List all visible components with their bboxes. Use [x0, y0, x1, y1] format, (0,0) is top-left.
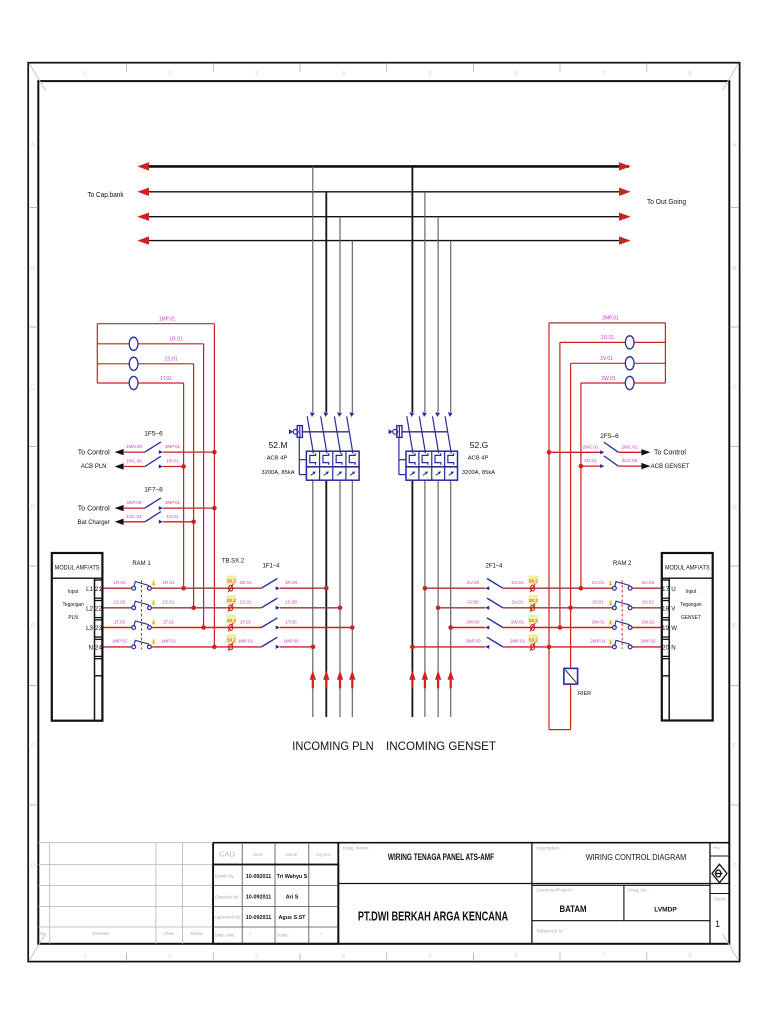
svg-text:1RC.00: 1RC.00	[126, 459, 142, 464]
svg-text:22: 22	[95, 605, 103, 612]
svg-text:Name: Name	[191, 931, 204, 936]
svg-text:RAM 1: RAM 1	[132, 561, 151, 567]
svg-text:ACB PLN: ACB PLN	[81, 464, 107, 470]
svg-text:7: 7	[602, 72, 606, 78]
svg-text:D: D	[732, 505, 737, 511]
svg-text:TB.SX.2: TB.SX.2	[222, 559, 245, 565]
svg-text:U: U	[671, 586, 675, 593]
svg-text:·: ·	[320, 932, 322, 938]
svg-text:Ari S: Ari S	[286, 895, 299, 901]
svg-text:L2: L2	[86, 605, 93, 612]
svg-text:1R.00: 1R.00	[285, 580, 298, 585]
svg-text:1NP.00: 1NP.00	[127, 500, 142, 505]
svg-text:2W.01: 2W.01	[511, 619, 524, 624]
svg-text:B: B	[732, 266, 736, 272]
svg-text:3200A, 85kA: 3200A, 85kA	[261, 470, 294, 476]
svg-text:ACB 4P: ACB 4P	[468, 456, 489, 462]
svg-text:GENSET: GENSET	[681, 615, 702, 621]
svg-text:W: W	[671, 625, 677, 632]
svg-text:F: F	[733, 744, 737, 750]
svg-text:SX.2: SX.2	[227, 598, 237, 603]
svg-text:To Control: To Control	[78, 505, 110, 512]
svg-text:2MC.02: 2MC.02	[621, 444, 638, 449]
svg-text:1S.01: 1S.01	[162, 600, 174, 605]
svg-text:F: F	[31, 744, 35, 750]
svg-text:Reference to :: Reference to :	[537, 929, 565, 934]
svg-text:2F5–6: 2F5–6	[600, 433, 619, 440]
svg-text:4: 4	[342, 954, 346, 960]
svg-text:·: ·	[250, 932, 252, 938]
svg-text:24: 24	[95, 645, 103, 652]
svg-text:1S.01: 1S.01	[166, 514, 178, 519]
svg-text:1R.01: 1R.01	[162, 580, 175, 585]
svg-text:E: E	[732, 624, 736, 630]
svg-text:2W.02: 2W.02	[641, 619, 654, 624]
svg-text:2U.00: 2U.00	[467, 580, 480, 585]
svg-text:2V.01: 2V.01	[592, 600, 604, 605]
svg-text:C: C	[31, 385, 36, 391]
svg-text:1SC.01: 1SC.01	[126, 514, 142, 519]
svg-text:Checked by: Checked by	[215, 894, 240, 899]
svg-text:SX.2: SX.2	[529, 579, 539, 584]
svg-text:B: B	[31, 266, 35, 272]
svg-text:2F1–4: 2F1–4	[485, 564, 503, 570]
svg-text:G: G	[732, 863, 737, 869]
svg-text:2U.01: 2U.01	[592, 580, 605, 585]
svg-text:Tegangan: Tegangan	[62, 602, 83, 608]
svg-text:2MP.02: 2MP.02	[640, 639, 656, 644]
svg-text:To Cap.bank: To Cap.bank	[87, 192, 124, 199]
svg-text:1F5–6: 1F5–6	[144, 431, 163, 438]
svg-text:Tegangan: Tegangan	[680, 602, 701, 608]
svg-text:Date: Date	[165, 931, 175, 936]
svg-text:Drawn by: Drawn by	[215, 873, 235, 878]
svg-text:N: N	[671, 645, 675, 652]
svg-text:Bat Charger: Bat Charger	[78, 520, 110, 526]
svg-text:1MP.01: 1MP.01	[161, 639, 177, 644]
svg-text:SX.2: SX.2	[227, 637, 237, 642]
svg-text:1MP.01: 1MP.01	[165, 500, 181, 505]
svg-text:Input: Input	[68, 589, 79, 595]
svg-text:3: 3	[255, 954, 259, 960]
svg-text:D: D	[31, 505, 36, 511]
svg-text:1MP.01: 1MP.01	[159, 317, 176, 323]
svg-text:1T.01: 1T.01	[240, 619, 252, 624]
svg-text:1MN.00: 1MN.00	[126, 444, 143, 449]
svg-text:E: E	[31, 624, 35, 630]
svg-text:1S.01: 1S.01	[164, 357, 177, 363]
svg-text:Agus S.ST: Agus S.ST	[279, 915, 307, 921]
svg-text:2V.01: 2V.01	[600, 356, 613, 362]
svg-text:L3: L3	[86, 625, 93, 632]
svg-text:No.: No.	[40, 931, 47, 936]
svg-text:Sheet: Sheet	[714, 897, 727, 902]
svg-text:CAD: CAD	[219, 850, 235, 859]
svg-text:PT.DWI BERKAH ARGA KENCANA: PT.DWI BERKAH ARGA KENCANA	[358, 910, 508, 924]
svg-text:10-092011: 10-092011	[246, 915, 271, 921]
svg-text:1MP.00: 1MP.00	[283, 639, 299, 644]
svg-text:1R.01: 1R.01	[169, 337, 183, 343]
svg-text:1MP.01: 1MP.01	[165, 444, 181, 449]
svg-text:1T.02: 1T.02	[114, 619, 126, 624]
svg-text:G: G	[31, 863, 36, 869]
svg-text:To Control: To Control	[654, 450, 686, 457]
svg-text:1S.02: 1S.02	[113, 600, 125, 605]
svg-text:BATAM: BATAM	[559, 903, 586, 914]
svg-text:Scale:: Scale:	[277, 933, 290, 938]
svg-text:SX.2: SX.2	[529, 618, 539, 623]
svg-text:5: 5	[428, 954, 432, 960]
svg-text:Drwg. Name:: Drwg. Name:	[343, 846, 369, 851]
svg-text:1F1–4: 1F1–4	[262, 564, 280, 570]
svg-text:Rev. :: Rev. :	[714, 845, 724, 850]
svg-text:2U.02: 2U.02	[642, 580, 655, 585]
svg-text:21: 21	[95, 586, 103, 593]
svg-text:Revision: Revision	[92, 931, 110, 936]
svg-text:2UC.00: 2UC.00	[622, 458, 638, 463]
svg-text:7: 7	[602, 954, 606, 960]
svg-text:RAM 2: RAM 2	[613, 561, 632, 567]
svg-text:2MP.01: 2MP.01	[602, 316, 619, 322]
svg-text:2U.01: 2U.01	[511, 580, 524, 585]
svg-text:8: 8	[688, 954, 692, 960]
svg-text:INCOMING GENSET: INCOMING GENSET	[386, 739, 496, 753]
svg-text:6: 6	[515, 954, 519, 960]
svg-text:Approved by: Approved by	[215, 914, 241, 919]
svg-text:MODUL AMF/ATS: MODUL AMF/ATS	[55, 564, 100, 572]
svg-text:N: N	[89, 645, 93, 652]
svg-text:6: 6	[515, 72, 519, 78]
svg-text:SX.2: SX.2	[529, 637, 539, 642]
svg-text:52.G: 52.G	[470, 440, 488, 450]
svg-text:INCOMING PLN: INCOMING PLN	[292, 740, 373, 754]
svg-text:1MP.01: 1MP.01	[238, 639, 254, 644]
svg-text:Date: Date	[254, 852, 264, 857]
svg-text:2W.00: 2W.00	[466, 619, 479, 624]
svg-text:23: 23	[95, 625, 103, 632]
svg-text:SX.2: SX.2	[529, 598, 539, 603]
svg-text:4: 4	[342, 72, 346, 78]
svg-text:2MP.00: 2MP.00	[465, 639, 481, 644]
svg-text:1T.01: 1T.01	[163, 619, 175, 624]
svg-text:WIRING TENAGA PANEL ATS-AMF: WIRING TENAGA PANEL ATS-AMF	[388, 852, 494, 862]
svg-text:WIRING CONTROL DIAGRAM: WIRING CONTROL DIAGRAM	[586, 853, 687, 863]
svg-text:10-092011: 10-092011	[246, 895, 271, 901]
svg-text:Drwg. No. :: Drwg. No. :	[628, 888, 651, 893]
svg-text:RIER: RIER	[578, 691, 591, 697]
svg-text:2V.01: 2V.01	[512, 600, 524, 605]
svg-text:1R.01: 1R.01	[239, 580, 252, 585]
svg-text:LVMDP: LVMDP	[654, 907, 677, 914]
svg-text:2W.01: 2W.01	[601, 376, 615, 382]
svg-text:1T.00: 1T.00	[285, 619, 297, 624]
svg-text:20: 20	[662, 645, 670, 652]
svg-text:17: 17	[662, 586, 670, 593]
svg-text:V: V	[671, 605, 676, 612]
svg-text:SX.2: SX.2	[227, 579, 237, 584]
svg-text:Signed: Signed	[316, 852, 331, 857]
svg-text:8: 8	[688, 72, 692, 78]
svg-text:A: A	[732, 143, 736, 149]
svg-text:2U.01: 2U.01	[584, 458, 597, 463]
svg-text:A: A	[31, 143, 35, 149]
svg-text:2U.01: 2U.01	[601, 335, 615, 341]
svg-text:1R.01: 1R.01	[166, 459, 179, 464]
svg-text:1MP.02: 1MP.02	[112, 639, 128, 644]
svg-text:2MC.01: 2MC.01	[582, 444, 599, 449]
svg-text:2W.01: 2W.01	[591, 619, 604, 624]
svg-text:2V.02: 2V.02	[642, 600, 654, 605]
svg-text:To Out Going: To Out Going	[647, 199, 686, 206]
svg-text:SX.2: SX.2	[227, 618, 237, 623]
svg-text:2: 2	[168, 72, 172, 78]
svg-text:L1: L1	[86, 586, 93, 593]
svg-text:2MP.01: 2MP.01	[590, 639, 606, 644]
svg-text:18: 18	[662, 605, 670, 612]
svg-text:5: 5	[428, 72, 432, 78]
svg-text:Dws. unit:: Dws. unit:	[215, 933, 235, 938]
svg-text:10-092011: 10-092011	[246, 874, 271, 880]
svg-text:ACB 4P: ACB 4P	[267, 456, 288, 462]
svg-text:1R.02: 1R.02	[113, 580, 126, 585]
svg-text:Tri Wahyu S: Tri Wahyu S	[277, 874, 308, 880]
svg-text:52.M: 52.M	[269, 440, 288, 450]
svg-text:Name: Name	[285, 852, 298, 857]
svg-text:MODUL AMF/ATS: MODUL AMF/ATS	[665, 564, 710, 572]
svg-text:PLN: PLN	[68, 615, 78, 621]
svg-text:19: 19	[662, 625, 670, 632]
svg-text:Input: Input	[686, 589, 697, 595]
svg-text:3200A, 85kA: 3200A, 85kA	[462, 470, 495, 476]
svg-text:1S.00: 1S.00	[285, 600, 297, 605]
svg-text:2V.00: 2V.00	[467, 600, 479, 605]
svg-text:3: 3	[255, 72, 259, 78]
svg-text:1: 1	[83, 72, 87, 78]
svg-text:2MP.01: 2MP.01	[510, 639, 526, 644]
svg-text:ACB GENSET: ACB GENSET	[651, 464, 690, 470]
svg-text:To Control: To Control	[78, 449, 110, 456]
svg-text:Customer/Project :: Customer/Project :	[537, 888, 574, 893]
svg-text:2: 2	[168, 954, 172, 960]
svg-text:Description :: Description :	[537, 846, 562, 851]
svg-text:1T.01: 1T.01	[160, 376, 172, 382]
svg-text:1: 1	[715, 919, 720, 929]
svg-text:C: C	[732, 385, 737, 391]
svg-text:1F7–8: 1F7–8	[144, 487, 163, 494]
svg-text:1: 1	[83, 954, 87, 960]
svg-text:1S.01: 1S.01	[239, 600, 251, 605]
